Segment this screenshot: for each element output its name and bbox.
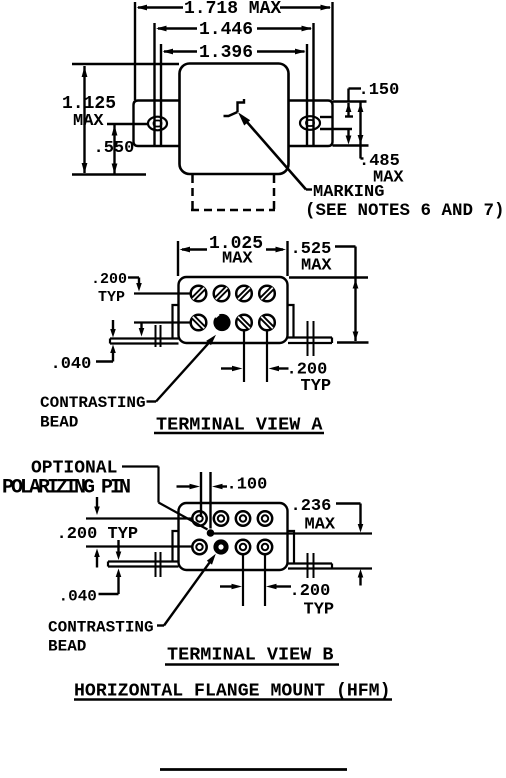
svg-text:MAX: MAX [305, 516, 336, 535]
svg-text:1.446: 1.446 [199, 20, 253, 40]
terminal extension leaders (view A) [244, 331, 267, 383]
terminal B6 with contrasting bead (solid ring) [213, 539, 228, 554]
marking leader arrow [238, 112, 312, 189]
left slot section hatch (view B) [156, 552, 161, 577]
left slot section hatch (view A) [156, 325, 161, 347]
svg-text:CONTRASTING: CONTRASTING [40, 394, 146, 412]
right flange foot (view B) [288, 564, 372, 569]
contrasting bead leader (view B) [157, 554, 216, 626]
right slot bottom extension bar [320, 128, 352, 130]
dimension .525 MAX (view A height) [289, 240, 369, 343]
row center reference lines (view A) [134, 294, 191, 323]
dimension 1.396 (mounting hole span inner) [161, 43, 307, 145]
svg-text:.550: .550 [94, 139, 135, 158]
svg-text:1.125: 1.125 [62, 94, 116, 114]
terminal A5 (bottom row) [191, 315, 207, 331]
svg-text:.200: .200 [290, 582, 331, 601]
terminal A2 (top row) [214, 286, 230, 302]
dimension 1.025 MAX (view A body width) [178, 234, 288, 276]
terminal A1 (top row) [191, 286, 207, 302]
svg-text:TYP: TYP [304, 601, 335, 620]
left mounting flange [134, 101, 180, 147]
terminal A3 (top row) [236, 286, 252, 302]
dimension .550 (hole center to bottom) [94, 125, 135, 175]
left flange plate (view A) [173, 305, 179, 338]
left flange foot (view B) [108, 562, 179, 567]
svg-text:.200: .200 [91, 271, 127, 288]
hidden terminal block (dashed) [191, 175, 275, 210]
dimension 1.125 MAX (body height) [62, 66, 116, 174]
terminal A4 (top row) [259, 286, 275, 302]
svg-text:TYP: TYP [301, 377, 332, 396]
body top extension line (left) [72, 63, 179, 65]
svg-text:MAX: MAX [301, 257, 332, 276]
dimension .200 TYP (view B row pitch, left) [57, 497, 139, 568]
dimension .040 (flange thickness, view B) [59, 540, 122, 606]
dimension .200 TYP (view B terminal pitch) [220, 582, 334, 620]
terminal A8 (bottom row) [259, 315, 275, 331]
terminal B7 (bottom row) [236, 540, 250, 554]
terminal B2 (top row) [214, 511, 228, 525]
svg-text:BEAD: BEAD [40, 414, 78, 432]
terminal extension leaders (view B) [243, 555, 265, 607]
svg-text:POLARIZING PIN: POLARIZING PIN [2, 477, 130, 500]
right flange plate (view A) [288, 305, 294, 338]
left mounting slot [148, 117, 167, 131]
optional polarizing pin (solid dot) [207, 529, 215, 537]
right slot section hatch (view B) [308, 553, 314, 578]
polarizing pin leader [122, 467, 208, 530]
svg-text:.200 TYP: .200 TYP [57, 525, 139, 544]
svg-text:.040: .040 [59, 588, 97, 606]
pin reference line [214, 532, 372, 534]
view A body outline [179, 277, 288, 343]
right flange top extension line [333, 100, 367, 102]
title TERMINAL VIEW A [154, 415, 324, 436]
label CONTRASTING BEAD (view B) [48, 619, 154, 656]
terminal B5 (bottom row) [192, 540, 206, 554]
terminal B8 (bottom row) [258, 540, 272, 554]
svg-text:1.718 MAX: 1.718 MAX [184, 0, 281, 19]
dimension .485 MAX (flange height) [358, 102, 405, 188]
marking location symbol [224, 99, 245, 116]
bottom extension line (left) [72, 173, 146, 175]
right flange foot (view A) [288, 338, 332, 344]
svg-text:TYP: TYP [98, 289, 125, 306]
title TERMINAL VIEW B [165, 645, 339, 666]
svg-text:MAX: MAX [73, 112, 104, 131]
dimension 1.718 MAX (top view overall width) [135, 0, 333, 100]
contrasting bead leader (view A) [147, 335, 217, 402]
terminal A7 (bottom row) [236, 315, 252, 331]
terminal B3 (top row) [236, 511, 250, 525]
svg-text:.150: .150 [359, 81, 400, 100]
footer separator line [160, 768, 347, 771]
svg-text:.236: .236 [291, 497, 332, 516]
right flange plate (view B) [288, 531, 295, 564]
svg-text:MAX: MAX [222, 250, 253, 269]
dimension .236 MAX (pin height) [291, 497, 364, 586]
svg-text:1.396: 1.396 [199, 43, 253, 63]
terminal B1 (top row) [192, 511, 206, 525]
dimension .150 (slot to mounting face) [320, 81, 399, 145]
dimension .200 TYP (view A row pitch, left) [91, 271, 144, 337]
right mounting flange [289, 101, 333, 147]
svg-text:CONTRASTING: CONTRASTING [48, 619, 154, 637]
svg-text:BEAD: BEAD [48, 638, 86, 656]
svg-text:MARKING: MARKING [313, 183, 384, 202]
title HORIZONTAL FLANGE MOUNT (HFM) [74, 682, 392, 702]
dimension 1.446 (mounting hole span outer) [155, 20, 314, 145]
leader from MAX to slot center [107, 123, 148, 125]
svg-text:.040: .040 [51, 355, 92, 374]
terminal A6 with contrasting bead (solid) [213, 314, 230, 331]
row center reference lines (view B) [86, 519, 193, 547]
left flange plate (view B) [173, 531, 179, 562]
dimension .200 TYP (view A terminal pitch) [221, 361, 331, 397]
svg-text:OPTIONAL: OPTIONAL [31, 459, 117, 479]
relay body outline (top view) [180, 64, 289, 175]
right flange bottom extension line [333, 144, 369, 146]
dimension .100 (pin offset) [177, 472, 268, 529]
label OPTIONAL POLARIZING PIN [2, 459, 130, 500]
right slot section hatch (view A) [308, 321, 314, 356]
svg-text:(SEE NOTES 6 AND 7): (SEE NOTES 6 AND 7) [305, 201, 505, 221]
terminal B4 (top row) [258, 511, 272, 525]
view B body outline [179, 503, 288, 570]
dimension .040 (flange thickness, view A) [51, 320, 116, 374]
svg-text:TERMINAL VIEW B: TERMINAL VIEW B [167, 645, 334, 666]
label CONTRASTING BEAD (view A) [40, 394, 146, 432]
left flange foot (view A) [110, 339, 179, 344]
right mounting slot [300, 116, 320, 130]
svg-text:.100: .100 [227, 476, 268, 495]
